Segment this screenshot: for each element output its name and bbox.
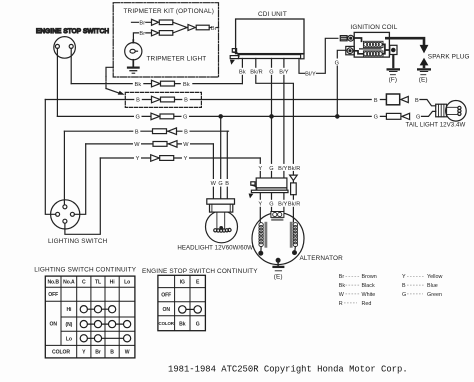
wire: B row left drop to lighting switch left pin [45, 100, 55, 215]
svg-text:W: W [125, 350, 130, 356]
wire: B row (tail) [45, 99, 386, 101]
tripmeter row A connector [152, 19, 173, 25]
svg-text:Blue: Blue [427, 283, 438, 289]
svg-text:Bk/R: Bk/R [250, 70, 263, 76]
svg-text:Yellow: Yellow [427, 274, 442, 280]
svg-text:B: B [402, 283, 406, 289]
svg-text:(F): (F) [389, 76, 397, 83]
wire: coil lower plug to G row [337, 50, 346, 116]
svg-text:R: R [339, 301, 343, 307]
ground F (ignition coil) [387, 45, 401, 83]
continuity row Hi [84, 308, 112, 310]
alternator connector left plug [249, 182, 257, 199]
svg-text:Green: Green [427, 292, 442, 298]
svg-text:Red: Red [362, 301, 372, 307]
wire: tripmeter row A [132, 22, 188, 27]
svg-text:B/Y: B/Y [278, 202, 287, 208]
svg-text:G: G [269, 202, 273, 208]
CDI left plug [230, 49, 239, 65]
labels below alternator connector [257, 200, 300, 207]
svg-text:W: W [211, 181, 217, 187]
wire: B headlight left drop to lighting switch top pin [63, 131, 65, 205]
wire labels left rows [133, 80, 193, 161]
tail light B connector [386, 94, 399, 105]
engine stop switch [36, 28, 109, 58]
wire: W row [86, 143, 214, 145]
svg-text:Y: Y [136, 156, 140, 162]
svg-text:Brown: Brown [362, 274, 377, 280]
svg-text:Bk: Bk [339, 283, 346, 289]
svg-text:B: B [415, 98, 419, 104]
svg-text:ENGINE STOP SWITCH CONTINUITY: ENGINE STOP SWITCH CONTINUITY [142, 268, 258, 275]
wire: B row (headlight) [64, 130, 228, 132]
node: G row junction CDI [270, 115, 273, 118]
connector pair on W row (reversed) [153, 141, 177, 148]
svg-text:OFF: OFF [48, 292, 58, 298]
svg-text:C: C [82, 280, 86, 286]
svg-text:B/Y: B/Y [278, 166, 287, 172]
svg-text:G: G [183, 115, 187, 121]
dashed connector box [125, 92, 201, 107]
wire: tail G to bulb [422, 111, 436, 116]
svg-text:W: W [339, 292, 345, 298]
ground E (spark plug) [419, 76, 428, 83]
svg-text:OFF: OFF [161, 293, 171, 299]
svg-text:B: B [374, 98, 378, 104]
svg-text:W: W [134, 142, 140, 148]
tail light [372, 96, 380, 120]
connector pair on G row [151, 113, 174, 120]
svg-text:G: G [416, 115, 420, 121]
svg-text:Bk: Bk [239, 70, 246, 76]
right coil [290, 222, 293, 248]
svg-text:B: B [136, 98, 140, 104]
svg-text:Bk/R: Bk/R [288, 202, 301, 208]
svg-text:IG: IG [180, 279, 185, 285]
svg-text:TRIPMETER KIT (OPTIONAL): TRIPMETER KIT (OPTIONAL) [124, 8, 214, 15]
svg-text:Bk/R: Bk/R [288, 166, 301, 172]
svg-text:Y: Y [402, 274, 406, 280]
svg-text:Y: Y [258, 202, 262, 208]
ground: tripmeter light [127, 68, 140, 74]
svg-text:B/Y: B/Y [279, 70, 288, 76]
svg-text:(N): (N) [66, 322, 73, 328]
wire: Y drop to alternator connector [259, 158, 261, 222]
engine stop switch continuity table [142, 268, 258, 331]
CDI unit [230, 11, 304, 59]
svg-text:Br: Br [139, 21, 145, 27]
svg-text:No.A: No.A [63, 280, 75, 286]
connector pair on Y row [151, 155, 174, 162]
svg-text:B: B [110, 350, 114, 356]
tail light bulb [436, 101, 467, 122]
svg-text:G: G [135, 115, 139, 121]
svg-text:Y: Y [184, 156, 188, 162]
svg-text:Bk: Bk [183, 82, 190, 88]
exciter coil box [271, 212, 284, 218]
labels above alternator connector [257, 164, 300, 171]
svg-text:B: B [135, 129, 139, 135]
svg-text:Lo: Lo [66, 336, 72, 342]
svg-text:Y: Y [258, 166, 262, 172]
svg-text:Hi: Hi [66, 307, 72, 313]
svg-text:G: G [402, 292, 406, 298]
alternator [252, 212, 304, 265]
svg-text:G: G [269, 166, 273, 172]
svg-text:HEADLIGHT 12V60W/60W: HEADLIGHT 12V60W/60W [177, 244, 253, 251]
svg-text:W: W [183, 142, 189, 148]
svg-text:1981-1984 ATC250R Copyright Ho: 1981-1984 ATC250R Copyright Honda Motor … [168, 364, 408, 374]
connector pair on B row (in dashed box) [152, 96, 175, 103]
wire: engine stop left pin to G row [56, 48, 58, 116]
svg-text:IGNITION COIL: IGNITION COIL [350, 24, 397, 31]
wire: G row [57, 115, 386, 117]
wire: CDI G pin down to alternator [271, 59, 273, 212]
wire: Y row drop and jog to lighting switch bottom pin [65, 158, 100, 234]
tripmeter output connector [188, 25, 209, 31]
wire: Bk/R resistor to alternator [292, 195, 294, 222]
tail light G connector [386, 113, 401, 119]
continuity row Lo [84, 337, 127, 339]
ignition coil [350, 24, 397, 57]
resistor [292, 181, 294, 183]
wire: CDI Bk/R pin to diode branch [256, 59, 294, 176]
lighting switch [48, 200, 108, 245]
alternator connector block [251, 178, 288, 193]
svg-text:Black: Black [362, 283, 375, 289]
svg-text:ON: ON [49, 321, 57, 327]
ignition coil lower plug [346, 46, 354, 54]
svg-text:No.B: No.B [47, 280, 59, 286]
connector pair on Bk row [152, 80, 175, 87]
svg-text:B: B [184, 98, 188, 104]
wire: CDI Bk pin [241, 59, 243, 84]
diode [290, 175, 298, 180]
svg-text:Br: Br [139, 31, 145, 37]
svg-text:TAIL LIGHT 12V3.4W: TAIL LIGHT 12V3.4W [406, 121, 466, 128]
svg-text:Bk: Bk [179, 321, 186, 327]
ground E (alternator) [272, 260, 284, 280]
color code legend [339, 274, 443, 307]
svg-text:Br: Br [211, 26, 217, 32]
svg-text:Lo: Lo [124, 280, 130, 286]
wire: Y row [100, 157, 260, 159]
wire: CDI Bl/Y to ignition coil [299, 38, 338, 73]
svg-text:B: B [225, 181, 229, 187]
svg-text:G: G [335, 60, 339, 66]
svg-text:Hi: Hi [110, 280, 116, 286]
wire: W row drop to lighting switch right pin [74, 144, 85, 214]
svg-text:COLOR: COLOR [159, 321, 175, 326]
svg-text:SPARK PLUG: SPARK PLUG [428, 54, 470, 61]
tripmeter light [125, 40, 142, 67]
node: G row junction headlight [219, 115, 222, 118]
svg-text:LIGHTING SWITCH CONTINUITY: LIGHTING SWITCH CONTINUITY [34, 267, 136, 274]
svg-text:B: B [184, 129, 188, 135]
svg-text:G: G [196, 321, 200, 327]
wire: tail B to bulb [420, 100, 436, 106]
svg-text:TL: TL [95, 280, 101, 286]
svg-text:CDI UNIT: CDI UNIT [258, 11, 287, 18]
lighting switch continuity table [34, 267, 136, 358]
connector pair on B headlight row (reversed) [153, 128, 177, 135]
svg-text:TRIPMETER LIGHT: TRIPMETER LIGHT [147, 56, 207, 63]
headlight wires W G B [212, 144, 214, 199]
tripmeter kit box [113, 3, 218, 77]
wire: tripmeter row B [133, 28, 187, 43]
CDI pin labels [237, 68, 289, 75]
spark plug [385, 38, 470, 71]
svg-text:(E): (E) [419, 76, 428, 83]
svg-text:G: G [374, 115, 378, 121]
svg-text:ENGINE STOP SWITCH: ENGINE STOP SWITCH [36, 28, 109, 35]
svg-text:LIGHTING SWITCH: LIGHTING SWITCH [48, 238, 108, 245]
svg-text:(E): (E) [274, 274, 283, 281]
headlight [206, 199, 238, 243]
wire: CDI B/Y pin down to alternator [283, 59, 285, 212]
svg-text:Bl/Y: Bl/Y [305, 72, 316, 78]
tripmeter plug-in arrow [106, 67, 113, 76]
svg-text:G: G [269, 70, 273, 76]
continuity row N [84, 323, 127, 325]
svg-text:G: G [218, 181, 222, 187]
node: G row junction ignition coil [336, 115, 339, 118]
svg-text:ALTERNATOR: ALTERNATOR [300, 255, 344, 262]
wire: engine stop right pin to Bk row [70, 48, 72, 83]
svg-text:Br: Br [95, 350, 101, 356]
svg-text:ON: ON [162, 307, 170, 313]
svg-text:Br: Br [339, 274, 345, 280]
tripmeter row B connector [152, 30, 173, 36]
ignition coil upper plug [340, 35, 353, 41]
svg-text:COLOR: COLOR [52, 350, 70, 356]
wire: Bk row [71, 83, 242, 85]
coil terminals [261, 247, 296, 253]
svg-text:Bk: Bk [135, 82, 142, 88]
left coil [264, 222, 267, 248]
svg-text:White: White [362, 292, 376, 298]
